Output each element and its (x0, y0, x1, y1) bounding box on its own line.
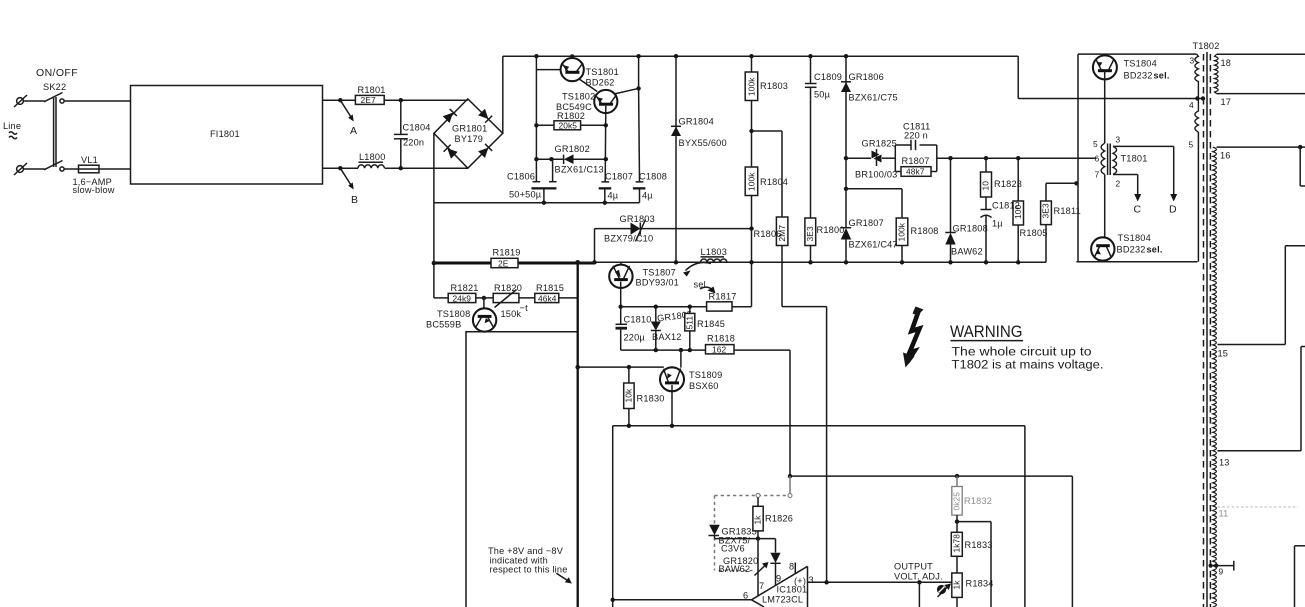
svg-text:The +8V and −8V: The +8V and −8V (488, 546, 564, 556)
wire: switch bottom to fuse VL1 (64, 168, 79, 170)
capacitor C1810 220u (616, 307, 652, 350)
svg-text:VL1: VL1 (81, 155, 98, 165)
svg-text:R1821: R1821 (451, 283, 479, 293)
svg-text:R1803: R1803 (760, 81, 788, 91)
svg-text:BZX61/C75: BZX61/C75 (849, 93, 898, 103)
node A junction (338, 98, 342, 102)
junction rail x594 (592, 260, 596, 264)
resistor R1806 2M7 (754, 217, 788, 307)
capacitor C1808 4u (633, 172, 667, 203)
resistor R1826 1k (753, 498, 793, 597)
svg-text:R1801: R1801 (358, 85, 386, 95)
resistor R1804 100k (745, 167, 788, 262)
diac GR1825 BR100/03 (855, 139, 897, 180)
svg-text:R1806: R1806 (754, 229, 782, 239)
diode GR1802 BZX61/C13 (555, 144, 604, 175)
wire: reference vertical x577 (577, 262, 579, 607)
junction R1845 bottom (688, 348, 692, 352)
svg-text:R1817: R1817 (709, 292, 737, 302)
wire: R1821 to R1820 (476, 297, 493, 299)
wire: row y476 to x1072 drop (790, 476, 1072, 607)
svg-text:4µ: 4µ (642, 191, 653, 201)
svg-text:R1811: R1811 (1054, 206, 1081, 216)
wire: TS1809 base row y367 (578, 366, 664, 368)
wire: GR1825 row segments (846, 157, 895, 159)
svg-text:15: 15 (1218, 349, 1229, 359)
wire: top bus corner down to y98.5 (1018, 56, 1197, 98)
wire: R1820 to R1815 (519, 297, 535, 299)
svg-text:R1808: R1808 (911, 226, 939, 236)
svg-text:3: 3 (1116, 135, 1121, 145)
wire: TS1807 emitter down (620, 282, 622, 307)
svg-text:R1818: R1818 (707, 334, 735, 344)
T1802 core (1204, 52, 1211, 607)
wire: pin3 row (808, 581, 952, 583)
svg-text:2E: 2E (498, 258, 509, 268)
wire: x433 drop to R1821 row (433, 263, 435, 298)
svg-text:46k4: 46k4 (538, 293, 557, 303)
svg-text:OUTPUT: OUTPUT (894, 562, 933, 572)
svg-text:L1803: L1803 (701, 247, 728, 257)
svg-text:R1807: R1807 (902, 156, 930, 166)
junction pin3 x826 (824, 580, 828, 584)
resistor R1815 46k4 (535, 283, 564, 303)
junction GR1802 row left (534, 157, 538, 161)
junction x846 y188 (844, 187, 848, 191)
tap 13 (1218, 347, 1305, 468)
svg-text:2E7: 2E7 (361, 95, 376, 105)
svg-text:BZX79/C10: BZX79/C10 (604, 234, 653, 244)
svg-text:17: 17 (1221, 97, 1232, 107)
wire: L1800 to bridge bottom (385, 167, 468, 169)
wire: top terminal to switch (23, 100, 44, 102)
svg-text:WARNING: WARNING (950, 323, 1023, 341)
svg-text:R1834: R1834 (966, 579, 994, 589)
dashed module outline (GR1835/GR1820 block) (715, 476, 793, 570)
tap 16 (1217, 145, 1305, 186)
svg-text:−t: −t (520, 303, 529, 313)
svg-text:R1826: R1826 (765, 514, 793, 524)
svg-text:9: 9 (776, 574, 781, 584)
svg-text:respect to this line: respect to this line (490, 565, 568, 575)
svg-text:BAW62: BAW62 (719, 564, 751, 574)
svg-text:R1830: R1830 (637, 394, 665, 404)
junction row x986 (984, 156, 988, 160)
wire: R1818 right, drop x790 (734, 350, 790, 476)
resistor R1830 10k (624, 367, 665, 426)
junction base row at x577 (575, 365, 580, 370)
svg-text:TS1804: TS1804 (1118, 233, 1151, 243)
svg-text:C3V6: C3V6 (721, 544, 745, 554)
svg-text:TS1802: TS1802 (562, 92, 595, 102)
svg-text:T1802 is at mains voltage.: T1802 is at mains voltage. (952, 358, 1104, 372)
resistor R1845 511 (685, 307, 725, 350)
transformer T1801 (1093, 135, 1148, 238)
node pin4 with tap dots (1189, 96, 1205, 110)
svg-text:1k: 1k (753, 515, 763, 525)
svg-text:18: 18 (1221, 58, 1232, 68)
svg-text:R1833: R1833 (965, 540, 993, 550)
svg-text:R1845: R1845 (697, 319, 725, 329)
wire: bottom terminal to switch (23, 168, 44, 170)
transistor TS1804 (bottom) BD232 sel. (1091, 233, 1163, 261)
svg-text:TS1807: TS1807 (643, 268, 676, 278)
svg-text:sel.: sel. (1147, 245, 1163, 255)
wire: TS1802 emitter down to C1807 (604, 106, 607, 182)
op-amp IC1801 LM723CL (743, 562, 814, 607)
svg-text:100k: 100k (747, 172, 757, 191)
wire: TS1804 emitter row to T1802 pin5 (1076, 132, 1198, 262)
transistor TS1804 (top) BD232 sel. (1093, 55, 1170, 143)
svg-text:100k: 100k (897, 222, 907, 241)
junction R1830 top (627, 365, 631, 369)
wire: vertical x638 top bus to C1808 (638, 56, 640, 88)
svg-text:BY179: BY179 (455, 134, 484, 144)
resistor R1817 (707, 292, 737, 312)
wire: R1801 to bridge top (384, 99, 468, 101)
junction TS1807 emitter row (619, 305, 623, 309)
fuse VL1 (79, 165, 100, 173)
transistor TS1801 BD262 (561, 54, 619, 87)
junction rail x676 (674, 260, 678, 264)
svg-text:sel.: sel. (1154, 71, 1170, 81)
junction C1806b top (549, 157, 553, 161)
diode GR1807 BZX61/C47 (841, 218, 898, 262)
transistor TS1808 BC559B (426, 298, 496, 332)
resistor R1802 (554, 111, 585, 131)
wire: R1821 row left (434, 297, 448, 299)
svg-text:TS1808: TS1808 (437, 309, 470, 319)
svg-text:220 n: 220 n (904, 131, 928, 141)
wire: R1815 to x577 (559, 297, 578, 299)
wire: R1802 left to x536 (536, 124, 554, 126)
wire: vertical x466 to bottom (465, 332, 467, 607)
junction rail x986 (984, 260, 988, 264)
svg-text:BD232: BD232 (1117, 245, 1146, 255)
zener GR1835 BZX75/C3V6 (709, 525, 757, 554)
resistor R1820 150k (NTC) (493, 283, 528, 319)
svg-text:TS1804: TS1804 (1124, 59, 1157, 69)
T1802 primary winding 3-4 (1190, 54, 1199, 98)
svg-text:0k25: 0k25 (952, 492, 962, 511)
wire: GR1835 to R1826 node (715, 536, 759, 539)
svg-text:slow-blow: slow-blow (73, 185, 115, 195)
svg-text:13: 13 (1219, 458, 1230, 468)
wire: TS1801 base to x536 (536, 69, 560, 71)
wire: pin6 row (613, 599, 752, 601)
resistor R1801 (355, 85, 385, 105)
junction GR1805 bottom (654, 348, 658, 352)
junction top bus x536 (534, 54, 538, 58)
svg-text:BAW62: BAW62 (951, 247, 983, 257)
svg-text:GR1807: GR1807 (849, 218, 884, 228)
potentiometer R1834 1k (937, 573, 994, 607)
wire: x1024 drop to bottom (1024, 426, 1026, 607)
tap 15 (1218, 246, 1305, 359)
svg-text:BDY93/01: BDY93/01 (636, 278, 679, 288)
junction rail x902 (900, 260, 904, 264)
svg-text:BYX55/600: BYX55/600 (679, 138, 727, 148)
junction rail x1018 (1016, 260, 1020, 264)
wire: switch top to FI1801 (64, 100, 131, 102)
inductor L1800 (358, 152, 386, 168)
svg-text:GR1806: GR1806 (849, 72, 884, 82)
svg-text:C: C (1134, 204, 1142, 216)
svg-text:B: B (351, 194, 358, 206)
junction x790 y476 (788, 474, 792, 478)
svg-text:FI1801: FI1801 (210, 129, 240, 139)
svg-text:1µ: 1µ (992, 219, 1003, 229)
svg-text:1k78: 1k78 (952, 534, 962, 553)
T1802 primary winding 4-5 (1189, 99, 1199, 150)
T1802 secondary main winding scallops (1213, 147, 1217, 607)
diode GR1808 BAW62 (945, 158, 988, 262)
svg-text:LM723CL: LM723CL (762, 595, 803, 605)
svg-text:BD232: BD232 (1124, 71, 1153, 81)
resistor R1811 3E3 (1041, 183, 1081, 262)
svg-text:R1802: R1802 (557, 111, 585, 121)
svg-text:50+50µ: 50+50µ (509, 190, 542, 200)
capacitor C1806 50+50u (507, 159, 557, 205)
junction x638 y88 (636, 86, 640, 90)
wire: GR1802 row (536, 158, 605, 160)
svg-text:R1804: R1804 (760, 177, 788, 187)
svg-text:511: 511 (685, 316, 695, 330)
wire: T1801 pin3 to node D (1113, 146, 1174, 194)
svg-text:TS1801: TS1801 (586, 67, 619, 77)
wire: GR1806 down to GR1807 (845, 158, 847, 228)
junction pin3 x919 (917, 580, 921, 584)
svg-text:7: 7 (1095, 170, 1100, 180)
svg-text:SK22: SK22 (43, 82, 66, 92)
resistor R1808 100k (896, 218, 938, 262)
transistor TS1807 BDY93/01 (609, 262, 679, 288)
svg-text:3: 3 (1190, 56, 1195, 66)
wire: row y306 to R1817 (621, 306, 707, 308)
svg-text:24k9: 24k9 (453, 293, 472, 303)
svg-text:BC559B: BC559B (426, 320, 461, 330)
svg-text:The whole circuit up to: The whole circuit up to (952, 345, 1092, 359)
junction rail x577 (575, 260, 580, 265)
junction GR1802 row right (604, 157, 608, 161)
junction rail x753 (749, 260, 753, 264)
wire: row y350 (621, 349, 706, 351)
svg-text:5: 5 (1189, 140, 1194, 150)
capacitor C1804 (394, 100, 431, 168)
wire: T1801 pin2 to node C (1113, 175, 1138, 195)
svg-text:9: 9 (1219, 567, 1224, 577)
svg-text:R1819: R1819 (493, 248, 521, 258)
wire: bottom bus (minus rail) (434, 202, 640, 204)
junction pin6 row x612 (611, 598, 615, 602)
svg-text:BAX12: BAX12 (652, 332, 682, 342)
terminal: line input top (14, 95, 27, 107)
svg-text:L1800: L1800 (359, 152, 386, 162)
junction R1830 bottom (627, 424, 631, 428)
diode GR1820 BAW62 (719, 539, 781, 586)
label 1,6-AMP slow-blow (73, 177, 115, 195)
svg-text:10k: 10k (624, 388, 634, 403)
svg-text:11: 11 (1219, 509, 1229, 519)
junction R1802 left (534, 123, 538, 127)
terminal: line input bottom (14, 163, 27, 175)
junction R1802 right (604, 123, 608, 127)
note: +8V/-8V reference text (488, 546, 572, 584)
wire: pin8 stub (794, 563, 796, 575)
svg-text:BSX60: BSX60 (689, 381, 719, 391)
annotation sel with arrows (683, 262, 716, 293)
warning lightning bolt (903, 307, 924, 368)
svg-text:C1807: C1807 (605, 172, 633, 182)
junction GR1825 row left (844, 156, 848, 160)
wire: x919 drop (918, 582, 920, 607)
svg-text:10: 10 (981, 181, 991, 191)
capacitor C1812 1u (981, 210, 992, 263)
resistor R1800 3E3 (805, 218, 845, 262)
svg-text:C1804: C1804 (403, 123, 431, 133)
wire: TS1808 emitter row y331 (465, 331, 577, 333)
svg-text:7: 7 (759, 581, 764, 591)
wire: R1817 right to x750 (732, 262, 752, 306)
junction TS1809 emitter (670, 424, 674, 428)
resistor R1821 24k9 (448, 283, 478, 303)
svg-text:5: 5 (1093, 139, 1098, 149)
resistor R1833 1k78 (951, 522, 992, 573)
transistor TS1809 BSX60 (660, 350, 722, 391)
node D arrow (1169, 194, 1177, 216)
wire: fuse to FI1801 (99, 168, 131, 170)
svg-text:BR100/03: BR100/03 (855, 170, 897, 180)
warning body text (952, 345, 1104, 372)
svg-text:16: 16 (1220, 151, 1231, 161)
svg-text:GR1808: GR1808 (953, 224, 988, 234)
junction rail x845 (844, 260, 848, 264)
wire: vertical x536 from top bus (535, 56, 537, 182)
svg-text:3: 3 (809, 575, 814, 585)
svg-text:GR1804: GR1804 (679, 117, 714, 127)
resistor R1819 2E (491, 248, 521, 269)
resistor R1823 10 (981, 158, 1023, 209)
svg-text:TS1809: TS1809 (689, 370, 722, 380)
junction GR1803 right (749, 226, 753, 230)
svg-text:C1809: C1809 (814, 72, 842, 82)
resistor R1803 100k (745, 54, 788, 167)
wire: FI1801 out top (323, 99, 356, 101)
svg-text:C1812: C1812 (992, 201, 1020, 211)
capacitor C1807 4u (599, 172, 633, 205)
svg-text:100k: 100k (747, 77, 757, 96)
junction rail x810 (808, 260, 812, 264)
wire: TS1809 emitter down (671, 385, 673, 426)
svg-text:R1832: R1832 (964, 496, 992, 506)
junction R1821-R1820 (482, 296, 486, 300)
svg-text:A: A (350, 125, 357, 137)
svg-text:R1800: R1800 (817, 225, 845, 235)
labels C1812 (992, 201, 1020, 229)
switch SK22 pole bottom (44, 161, 64, 172)
junction rail x950 (948, 260, 952, 264)
svg-text:R1820: R1820 (494, 283, 522, 293)
junction x1076 y183 (1074, 181, 1078, 185)
wire: top bus (plus rail) (503, 55, 1018, 57)
svg-text:C1808: C1808 (639, 172, 667, 182)
node A arrow (340, 100, 357, 137)
svg-text:48k7: 48k7 (906, 167, 925, 177)
svg-text:R1805: R1805 (1020, 228, 1048, 238)
wire: row y425 (613, 426, 1025, 607)
junction top bus x638 (636, 54, 640, 58)
label OUTPUT VOLT. ADJ. (894, 562, 943, 582)
svg-text:GR1825: GR1825 (862, 139, 897, 149)
wire: TS1804 collector line y54 (1078, 54, 1197, 262)
svg-text:20k5: 20k5 (559, 121, 578, 131)
svg-text:1k: 1k (952, 580, 962, 590)
node B junction (338, 166, 342, 170)
node B arrow (340, 168, 358, 206)
svg-text:ON/OFF: ON/OFF (36, 67, 78, 79)
svg-text:C1810: C1810 (624, 315, 652, 325)
wire: TS1802 collector to x638 node (614, 88, 639, 94)
svg-text:162: 162 (712, 345, 727, 355)
wire: jumper x846 to R1808 (846, 189, 902, 218)
switch SK22 pole top (44, 93, 64, 104)
svg-text:R1815: R1815 (536, 283, 564, 293)
svg-text:GR1803: GR1803 (620, 214, 655, 224)
junction x433 y263 (432, 261, 437, 266)
diode GR1803 BZX79/C10 (595, 214, 752, 244)
junction C1804 bottom (399, 166, 403, 170)
junction TS1809 collector top (679, 348, 683, 352)
svg-text:220µ: 220µ (624, 333, 646, 343)
junction R1832 bottom (955, 519, 959, 523)
transistor TS1802 BC549C (556, 90, 617, 113)
svg-text:4µ: 4µ (608, 191, 619, 201)
svg-text:50µ: 50µ (814, 90, 831, 100)
tap 9 with terminal (1209, 561, 1234, 577)
wire: row y158 right of network (937, 157, 1097, 159)
junction row x950 (948, 156, 952, 160)
svg-text:6: 6 (1095, 154, 1100, 164)
wire: TS1801 to TS1802 (579, 79, 598, 92)
junction R1845 top (688, 305, 692, 309)
diode GR1805 BAX12 (651, 305, 693, 351)
wire: GR1803 drop x594 (594, 229, 596, 262)
svg-text:GR1801: GR1801 (452, 124, 487, 134)
svg-text:VOLT. ADJ.: VOLT. ADJ. (894, 572, 943, 582)
svg-text:3E3: 3E3 (805, 226, 815, 241)
svg-text:BZX61/C13: BZX61/C13 (555, 165, 604, 175)
resistor R1832 0k25 (952, 476, 992, 521)
diode GR1806 BZX61/C75 (841, 54, 898, 158)
svg-text:GR1802: GR1802 (555, 144, 590, 154)
node: C1804 top (399, 98, 403, 102)
svg-text:BZX61/C47: BZX61/C47 (849, 240, 898, 250)
svg-text:D: D (1169, 204, 1177, 216)
diode GR1804 BYX55/600 (671, 54, 727, 262)
T1802 secondary winding 18-17 (1215, 54, 1305, 107)
wire: jog to x991 drop (957, 522, 991, 607)
inductor L1803 (701, 247, 728, 262)
wire: x753 to 2M7 branch (752, 131, 783, 217)
wire: bottom right corner box (1295, 546, 1305, 607)
capacitor C1811 220n with resistor R1807 48k7 parallel (895, 122, 937, 177)
wire: R1802 right to TS1802 emitter line (581, 124, 606, 126)
mains filter FI1801 (131, 86, 323, 185)
svg-text:220n: 220n (403, 138, 424, 148)
svg-text:T1802: T1802 (1193, 41, 1220, 51)
wire: bridge left corner down to bottom bus (433, 133, 435, 263)
svg-text:6: 6 (743, 591, 748, 601)
